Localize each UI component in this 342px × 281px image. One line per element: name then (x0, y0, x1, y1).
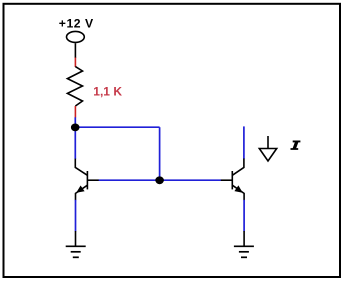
wire node B to Q2 base (160, 179, 221, 181)
wire Q1 emitter (blue) (75, 200, 77, 232)
wire resistor to node A (74, 117, 76, 127)
svg-text:1,1 K: 1,1 K (93, 84, 122, 98)
resistor R1 pin 1 (red) (74, 58, 76, 68)
node B junction dot (155, 176, 164, 184)
wire node A down to Q1 collector (74, 131, 76, 160)
wire Q2 collector (blue, open end top) (243, 126, 245, 159)
supply terminal circle (67, 31, 85, 42)
node A junction dot (71, 124, 80, 132)
ground symbol right (234, 246, 254, 257)
wire Q1 base to node B (99, 179, 160, 181)
wire supply to resistor (74, 43, 76, 58)
transistor Q1 (NPN, mirrored) (75, 159, 98, 201)
wire Q1 emitter to ground (black) (75, 231, 77, 246)
svg-text:+12 V: +12 V (59, 16, 94, 30)
wire node A to right (top horizontal) (75, 126, 159, 128)
resistor R1 pin 2 (red) (74, 106, 76, 118)
wire Q2 emitter to ground (black) (243, 231, 245, 246)
ground symbol left (66, 246, 86, 257)
transistor Q2 (NPN) (221, 159, 244, 201)
current direction arrow (259, 136, 276, 161)
label I (291, 141, 301, 150)
wire Q2 emitter (blue) (243, 200, 245, 232)
resistor R1 body (67, 67, 82, 106)
wire vertical down to node B (159, 127, 161, 180)
